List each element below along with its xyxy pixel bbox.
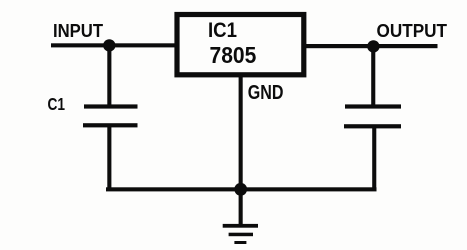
node: ground rail junction dot <box>234 183 247 196</box>
svg-text:OUTPUT: OUTPUT <box>377 20 448 41</box>
wire: IC1 GND pin down through rail to ground symbol <box>239 77 243 226</box>
op-amp/regulator U1 box: IC1 7805 <box>177 15 304 75</box>
wire: input rail from left to IC1 pin <box>51 43 177 47</box>
node: input junction dot <box>103 39 115 51</box>
svg-text:7805: 7805 <box>210 42 257 68</box>
capacitor C2 bottom plate <box>344 124 401 128</box>
wire: bottom ground rail <box>106 187 377 191</box>
wire: C2 bottom plate down to ground rail <box>372 126 376 191</box>
capacitor C1 top plate <box>84 104 138 108</box>
wire: output rail from IC1 pin to right <box>304 44 438 48</box>
capacitor C1 bottom plate <box>83 123 138 127</box>
svg-text:GND: GND <box>248 82 284 104</box>
capacitor C2 top plate <box>345 104 401 108</box>
wire: output junction down to C2 top plate <box>371 46 375 106</box>
svg-text:IC1: IC1 <box>208 19 237 42</box>
wire: C1 bottom plate down to ground rail <box>107 125 111 191</box>
ground symbol bar 3 <box>234 241 246 244</box>
wire: input junction down to C1 top plate <box>107 45 111 106</box>
svg-text:INPUT: INPUT <box>53 20 103 41</box>
svg-text:C1: C1 <box>48 94 66 114</box>
node: output junction dot <box>367 40 379 52</box>
ground symbol bar 1 <box>223 224 258 228</box>
ground symbol bar 2 <box>229 233 253 237</box>
